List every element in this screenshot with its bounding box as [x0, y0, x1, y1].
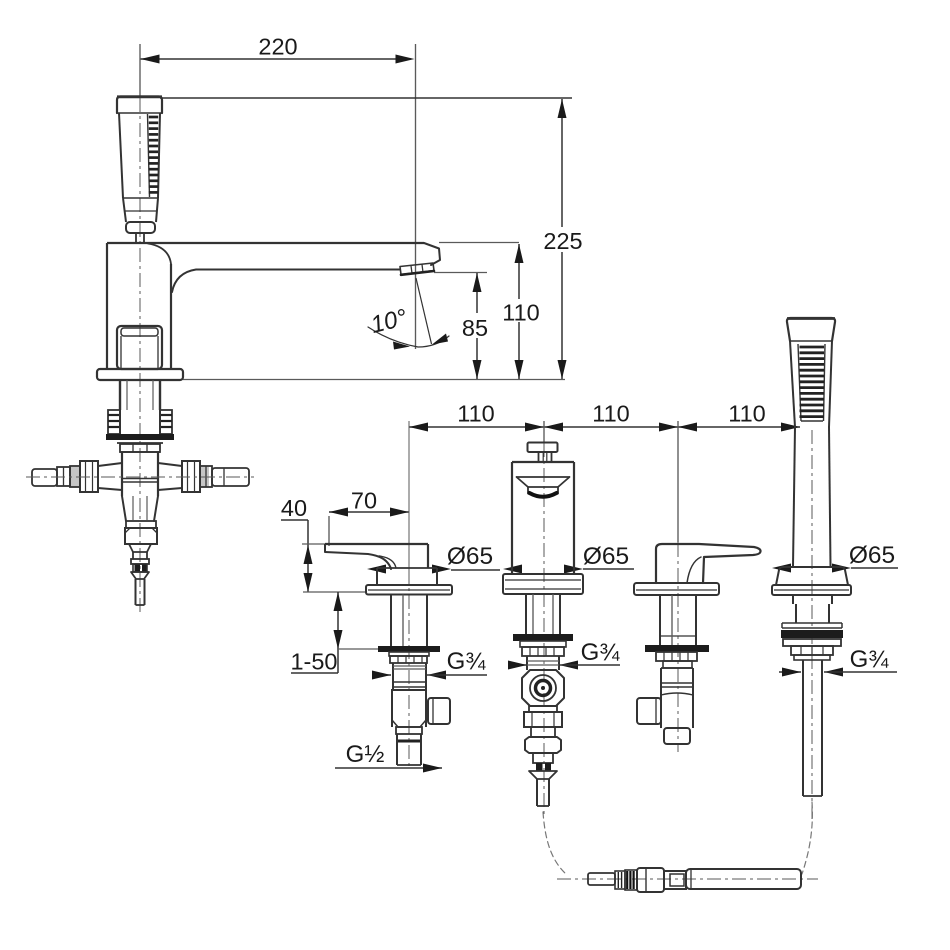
- svg-text:225: 225: [543, 228, 582, 254]
- svg-text:Ø65: Ø65: [849, 542, 895, 569]
- svg-text:110: 110: [592, 401, 629, 427]
- svg-text:70: 70: [351, 488, 377, 514]
- svg-text:G½: G½: [346, 741, 385, 768]
- svg-text:Ø65: Ø65: [447, 543, 493, 570]
- svg-text:G¾: G¾: [447, 648, 487, 675]
- svg-text:40: 40: [281, 495, 307, 521]
- svg-text:Ø65: Ø65: [583, 543, 629, 570]
- svg-text:G¾: G¾: [850, 646, 890, 673]
- svg-text:G¾: G¾: [581, 639, 621, 666]
- svg-text:110: 110: [728, 401, 765, 427]
- svg-text:110: 110: [457, 401, 494, 427]
- svg-text:110: 110: [502, 300, 539, 326]
- svg-text:1-50: 1-50: [290, 649, 337, 675]
- svg-text:220: 220: [258, 34, 297, 60]
- svg-text:85: 85: [462, 315, 488, 341]
